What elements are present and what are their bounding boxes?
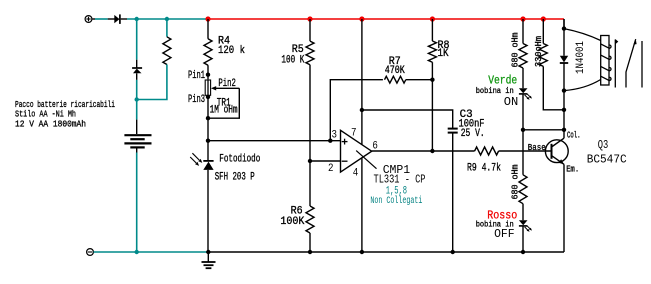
- svg-text:7: 7: [351, 128, 357, 140]
- svg-text:680 oHm: 680 oHm: [511, 33, 521, 68]
- node red junction pin7: [359, 16, 364, 21]
- node teal junction battery bottom: [135, 250, 139, 254]
- node red junction R5: [307, 16, 312, 21]
- node C3 supply junction: [360, 108, 364, 112]
- relay contact fixed left: [615, 39, 618, 88]
- node pin4 ground junction: [360, 250, 364, 254]
- wire below diode D2: [136, 80, 138, 120]
- wire 680a to green led: [522, 68, 524, 88]
- node ground junction: [206, 250, 210, 254]
- wire 330 top lead: [542, 19, 544, 44]
- resistor R8: [428, 41, 436, 62]
- wire noninverting input: [208, 140, 341, 142]
- op-amp plus sign: [342, 139, 348, 145]
- node R7 feedback junction: [328, 139, 332, 143]
- svg-text:100K: 100K: [280, 216, 304, 228]
- svg-text:25 V.: 25 V.: [461, 128, 485, 140]
- wire R5 to divider node: [309, 65, 311, 206]
- svg-text:Pin3: Pin3: [188, 94, 205, 106]
- CMP1 label: [370, 163, 425, 207]
- wire R6 to ground rail: [309, 233, 311, 252]
- svg-text:100 K: 100 K: [281, 54, 304, 66]
- op-amp minus sign: [342, 160, 348, 162]
- ground: [202, 252, 216, 268]
- LED red: [519, 220, 532, 232]
- svg-text:12 V AA 1800mAh: 12 V AA 1800mAh: [15, 119, 86, 130]
- TR1 value label: [210, 98, 238, 117]
- diode 1N4001: [560, 56, 568, 63]
- resistor R9: [475, 147, 499, 155]
- Q3 label: [587, 138, 627, 166]
- Verde label: [476, 73, 519, 109]
- LED green: [519, 88, 532, 100]
- svg-text:470K: 470K: [385, 65, 405, 77]
- wire emitter lead: [563, 164, 565, 252]
- R7 value label: [385, 56, 405, 77]
- svg-text:Pin2: Pin2: [218, 78, 236, 90]
- wire TR1 to photodiode node: [207, 95, 209, 161]
- wire pin7 supply: [361, 19, 363, 145]
- relay contact fixed right: [641, 41, 643, 88]
- resistor R6: [306, 206, 314, 233]
- svg-text:120 k: 120 k: [218, 45, 245, 57]
- wire C3 top: [362, 110, 453, 128]
- node red junction R8: [430, 16, 435, 21]
- wire battery to bottom rail: [136, 153, 138, 253]
- svg-text:OFF: OFF: [494, 227, 514, 241]
- wire photodiode to ground: [207, 170, 209, 252]
- node C3 ground junction: [451, 250, 455, 254]
- wire C3 to ground rail: [452, 133, 454, 252]
- resistor R7: [385, 76, 406, 83]
- R5 value label: [281, 44, 304, 66]
- resistor 680 ohm lower: [519, 175, 527, 204]
- op-amp leader line: [356, 151, 376, 169]
- node coil top junction: [562, 26, 566, 30]
- battery plus terminal: [85, 16, 92, 23]
- svg-text:R9 4.7k: R9 4.7k: [467, 162, 501, 174]
- wire base: [499, 150, 552, 152]
- wire collector lead: [563, 130, 565, 138]
- R4 value label: [218, 35, 245, 57]
- Rosso label: [476, 208, 518, 241]
- svg-text:ON: ON: [504, 95, 519, 109]
- wire R8 top lead: [431, 19, 433, 41]
- wire diode to coil bottom junction: [563, 63, 565, 130]
- wire left column upper: [136, 19, 138, 60]
- node R8 output junction: [430, 149, 434, 153]
- svg-text:1K: 1K: [438, 48, 449, 60]
- resistor R5: [306, 41, 314, 65]
- svg-text:680 oHm: 680 oHm: [511, 165, 521, 200]
- wire R8 to output: [431, 62, 433, 151]
- node Pin1: [206, 73, 210, 77]
- wire R4 top lead: [207, 19, 209, 39]
- node R7 R8 junction: [430, 78, 434, 82]
- svg-text:1M oHm: 1M oHm: [210, 105, 238, 117]
- svg-text:SFH 203 P: SFH 203 P: [215, 172, 255, 184]
- battery pack label: [15, 99, 115, 130]
- svg-text:Col.: Col.: [567, 130, 581, 141]
- resistor shunt unlabeled: [163, 37, 171, 65]
- node photodiode top junction: [206, 139, 210, 143]
- node teal junction B: [165, 17, 169, 21]
- resistor 330 ohm: [539, 44, 547, 67]
- node teal junction C: [135, 97, 139, 101]
- wire R4 to trimmer: [207, 65, 209, 79]
- wire second column lower: [137, 65, 167, 100]
- svg-text:BC547C: BC547C: [587, 152, 627, 166]
- diode D1 series: [92, 14, 127, 24]
- wire coil column upper: [563, 19, 565, 56]
- C3 value label: [459, 109, 485, 140]
- wire 680a top lead: [522, 19, 524, 44]
- svg-text:Pin1: Pin1: [188, 70, 205, 82]
- wire R5 top lead: [309, 19, 311, 41]
- node red junction R4: [205, 16, 210, 21]
- R8 value label: [438, 40, 450, 60]
- wire 330 jog to coil column: [543, 66, 564, 109]
- node red junction green led: [520, 16, 525, 21]
- wire green led to collector node: [522, 94, 524, 130]
- R6 value label: [280, 206, 304, 228]
- svg-text:Non Collegati: Non Collegati: [370, 195, 422, 207]
- wire TR1 wiper loop: [208, 88, 239, 118]
- wire output: [372, 150, 475, 152]
- svg-text:3: 3: [332, 129, 338, 141]
- svg-text:330oHm: 330oHm: [534, 36, 544, 67]
- node collector junction: [562, 128, 566, 132]
- node teal junction A: [135, 17, 139, 21]
- node bottom junction R6: [308, 250, 312, 254]
- svg-text:2: 2: [328, 163, 334, 175]
- node Pin3: [206, 95, 210, 99]
- trimmer TR1: [205, 79, 239, 95]
- node TR1 loop junction: [206, 116, 210, 120]
- wire red led to ground rail: [522, 226, 524, 252]
- svg-text:TL331 - CP: TL331 - CP: [374, 173, 426, 187]
- resistor 680 ohm upper: [519, 44, 527, 68]
- resistor R4: [204, 39, 212, 65]
- wire top teal segment: [127, 18, 208, 20]
- wire top red rail: [208, 18, 564, 20]
- svg-text:1N4001: 1N4001: [575, 41, 587, 74]
- node divider junction: [308, 159, 312, 163]
- svg-text:Em.: Em.: [566, 163, 579, 174]
- wire coil bottom arc: [564, 80, 601, 91]
- wire rail corner drop: [563, 19, 565, 29]
- wire bottom teal rail: [94, 251, 209, 253]
- transistor Q3: [545, 138, 568, 164]
- battery B1: [124, 120, 151, 153]
- wire R7 to R8 column: [406, 79, 433, 81]
- relay coil K1: [601, 36, 611, 86]
- svg-text:Base: Base: [528, 142, 546, 153]
- wire second column upper: [166, 19, 168, 37]
- svg-text:Fotodiodo: Fotodiodo: [219, 154, 260, 166]
- capacitor C3: [448, 129, 458, 133]
- wire R7 feedback leg: [330, 80, 383, 141]
- wire 680b to red led: [522, 204, 524, 221]
- op-amp U1 triangle: [341, 130, 372, 172]
- wire bottom black rail: [208, 251, 564, 253]
- photodiode D3: [190, 153, 213, 170]
- svg-text:4: 4: [353, 168, 359, 180]
- wire collector node horizontal: [523, 129, 564, 131]
- battery minus terminal: [87, 249, 94, 256]
- wire inverting input: [310, 160, 341, 162]
- svg-text:Q3: Q3: [598, 138, 609, 152]
- wire pin4 to ground: [361, 158, 363, 252]
- wire red led column: [522, 130, 524, 175]
- photodiode label: [215, 154, 261, 184]
- relay contact lever: [626, 39, 637, 88]
- node coil bottom junction: [562, 88, 566, 92]
- node coil jog junction: [562, 108, 566, 112]
- diode D2 shunt: [132, 60, 142, 80]
- node collector left junction: [521, 128, 525, 132]
- wire coil top arc: [564, 29, 601, 41]
- node red junction 330: [541, 16, 546, 21]
- node red led ground junction: [521, 250, 525, 254]
